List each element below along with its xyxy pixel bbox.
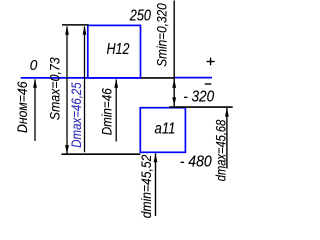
svg-text:dmax=45,68: dmax=45,68 bbox=[213, 119, 228, 181]
svg-text:Dmin=46: Dmin=46 bbox=[100, 88, 115, 135]
dimension Dmin=46 line bbox=[115, 80, 117, 142]
extension of H12 top edge (black) bbox=[62, 24, 89, 26]
minus sign (negative deviation side) bbox=[205, 83, 212, 85]
svg-text:- 320: - 320 bbox=[183, 89, 214, 106]
dimension Smax=0,73 line bbox=[66, 27, 68, 154]
-320 level line (black) bbox=[169, 106, 232, 108]
svg-text:Dном=46: Dном=46 bbox=[15, 81, 30, 133]
dimension Dmax=46,25 line bbox=[84, 27, 86, 153]
baseline extension of a11 bottom (black) bbox=[62, 153, 141, 155]
svg-text:250: 250 bbox=[129, 7, 151, 24]
svg-text:0: 0 bbox=[30, 57, 38, 74]
shaft tolerance zone a11 bbox=[140, 108, 185, 153]
hole tolerance zone H12 bbox=[88, 25, 141, 78]
zero line (blue, left segment) bbox=[21, 77, 141, 79]
zero line (blue, right segment) bbox=[174, 77, 212, 79]
zero line (black, middle segment) bbox=[141, 77, 175, 79]
Smin leader / dimension line bbox=[173, 1, 175, 107]
svg-text:- 480: - 480 bbox=[180, 154, 212, 171]
svg-text:dmin=45,52: dmin=45,52 bbox=[139, 154, 154, 218]
svg-text:Dmax=46,25: Dmax=46,25 bbox=[69, 82, 84, 148]
dimension dmax=45,68 line bbox=[226, 108, 228, 169]
svg-text:H12: H12 bbox=[107, 41, 130, 58]
svg-text:Smax=0,73: Smax=0,73 bbox=[47, 57, 62, 120]
dimension dmin=45,52 line bbox=[155, 154, 157, 217]
dimension Dnom=46 line bbox=[34, 80, 36, 142]
svg-text:a11: a11 bbox=[155, 120, 176, 137]
plus sign (positive deviation side) bbox=[207, 61, 215, 63]
svg-text:Smin=0,320: Smin=0,320 bbox=[154, 3, 169, 67]
